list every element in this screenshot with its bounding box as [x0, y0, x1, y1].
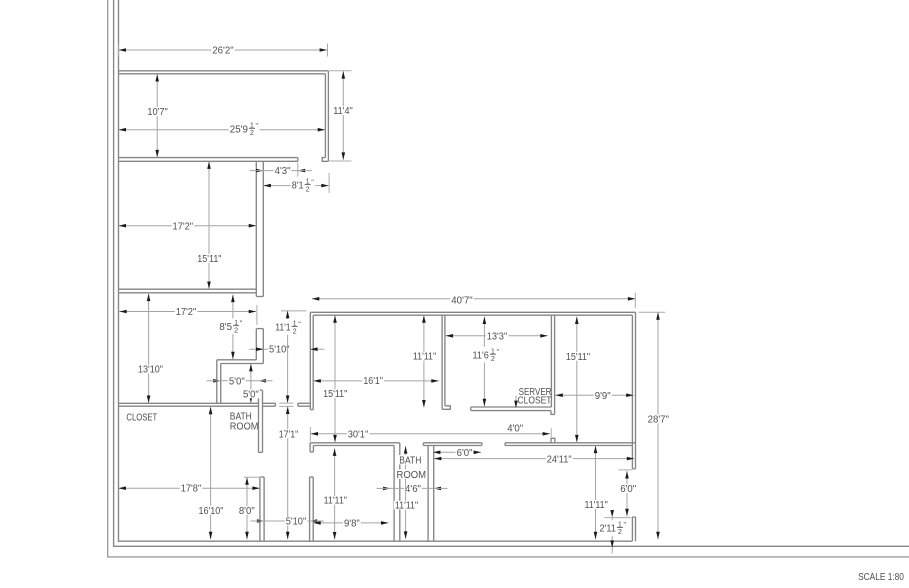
dimension 8'1 1/2	[264, 185, 329, 187]
dimension 17'2 room B	[119, 225, 257, 227]
svg-text:15'11": 15'11"	[197, 254, 222, 265]
dimension 5'10 bottom corridor	[264, 520, 310, 522]
dimension 11'11 bathroom2 vertical	[405, 446, 407, 539]
wall: long corridor wall H1 left part	[119, 402, 259, 404]
wall: bathroom2 right wall	[427, 446, 429, 542]
exterior wall inner face line (L-shape)	[119, 0, 633, 541]
dimension 16'10 closet room vertical	[210, 407, 212, 539]
wall: corridor south wall H2b	[423, 442, 482, 444]
svg-text:25'9: 25'9	[230, 124, 249, 135]
extension tick right door 6'0 bottom / 2'11half top	[605, 517, 632, 519]
extension tick 4'3 right	[297, 163, 299, 177]
wall: P1 bottom foot	[442, 406, 450, 410]
svg-text:": "	[298, 319, 301, 328]
extension tick 28'7 top	[639, 311, 665, 313]
dimension 11'11 bottom right room vertical	[595, 446, 597, 540]
label BATH ROOM 2	[399, 455, 423, 465]
extension tick 30'1 left	[309, 427, 311, 442]
dimension 17'8 closet room	[119, 487, 260, 489]
svg-text:5'10": 5'10"	[269, 345, 290, 356]
dimension 16'1 suite room1	[313, 380, 438, 382]
extension tick 26'2 right	[327, 44, 329, 57]
svg-text:8'0": 8'0"	[239, 506, 255, 517]
extension tick 26'2 left	[117, 44, 119, 57]
svg-text:16'10": 16'10"	[199, 506, 224, 517]
wall: suite right lower segment	[635, 517, 637, 541]
svg-text:10'7": 10'7"	[147, 107, 168, 118]
dimension 9'9 suite room3	[555, 394, 633, 396]
extension tick 8'1half right	[328, 173, 330, 193]
dimension 6'0 right door vertical	[626, 471, 628, 516]
dimension 4'3 door offset	[263, 170, 297, 172]
svg-text:6'0": 6'0"	[620, 484, 636, 495]
svg-text:CLOSET: CLOSET	[126, 412, 157, 423]
svg-text:BATH: BATH	[399, 456, 421, 467]
dimension 11'11 suite room1 right vertical	[423, 315, 425, 407]
svg-text:ROOM: ROOM	[397, 470, 427, 481]
extension tick 8'0 top	[244, 476, 262, 478]
svg-text:2'11: 2'11	[600, 524, 617, 535]
wall: server closet bottom	[471, 406, 552, 408]
wall: suite left wall	[309, 312, 311, 409]
wall: room A right	[327, 71, 329, 162]
svg-text:24'11": 24'11"	[547, 455, 572, 466]
dimension 11'6 1/2 suite room2 vertical	[483, 317, 485, 407]
wall: bathroom2 left wall	[393, 446, 395, 542]
svg-text:2: 2	[618, 527, 622, 536]
wall: suite partition P1	[441, 315, 443, 409]
extension tick 11'4 top	[329, 70, 351, 72]
dimension 28'7 suite right vertical	[657, 312, 659, 539]
wall: bathroom1 top horizontal	[217, 359, 256, 361]
dimension 13'3 suite room2	[446, 335, 548, 337]
svg-text:26'2": 26'2"	[212, 45, 234, 56]
svg-text:11'1: 11'1	[275, 323, 291, 334]
extension tick 40'7 right	[634, 293, 636, 309]
dimension 5'10 corridor above bathroom1	[249, 348, 289, 350]
wall: room A top (26'2 room)	[119, 70, 329, 72]
wall: suite partition P2 (server closet right)	[550, 315, 552, 407]
svg-text:9'8": 9'8"	[344, 518, 360, 529]
svg-text:40'7": 40'7"	[451, 296, 473, 307]
extension ticks corridor 17'1 / 11'1half boundary	[279, 402, 293, 404]
svg-text:8'1: 8'1	[292, 181, 304, 192]
svg-text:13'3": 13'3"	[487, 332, 508, 343]
svg-text:2: 2	[306, 184, 310, 193]
dimension stub arrow at server closet bottom wall	[515, 396, 517, 407]
svg-text:11'4": 11'4"	[333, 106, 353, 117]
svg-text:17'2": 17'2"	[176, 307, 197, 318]
svg-text:11'6: 11'6	[473, 350, 490, 361]
svg-text:11'11": 11'11"	[395, 501, 419, 512]
wall: room A bottom with door gap	[119, 157, 298, 159]
svg-text:16'1": 16'1"	[363, 376, 383, 387]
svg-text:2: 2	[250, 128, 254, 137]
dimension 8'5 1/2 vertical	[232, 295, 234, 359]
dimension 2'11 1/2 right vertical	[611, 518, 613, 541]
svg-text:17'1": 17'1"	[279, 429, 299, 440]
svg-text:15'11": 15'11"	[566, 352, 591, 363]
wall: corridor wall H1 stub right of bathroom1 wall	[263, 402, 276, 404]
dimension 17'1 corridor lower	[287, 407, 289, 540]
svg-text:30'1": 30'1"	[348, 429, 369, 440]
dimension 6'0 door mid	[433, 451, 481, 453]
dimension 15'11 room B vertical	[208, 162, 210, 289]
dimension 24'11 bottom right room	[434, 458, 634, 460]
svg-text:": "	[624, 520, 627, 529]
wall: room B bottom	[119, 288, 257, 290]
wall: room B right	[255, 161, 257, 296]
dimension 26'2 room A top	[119, 49, 327, 51]
dimension 5'0 bathroom1 door width	[221, 380, 259, 382]
dimension 11'11 room 9'8 vertical	[334, 449, 336, 540]
svg-text:17'2": 17'2"	[173, 221, 194, 232]
svg-text:11'11": 11'11"	[324, 496, 348, 507]
dimension 30'1 corridor	[311, 433, 550, 435]
svg-text:6'0": 6'0"	[457, 448, 473, 459]
dimension 17'2 room C	[119, 311, 256, 313]
dimension 13'10 room C vertical	[148, 294, 150, 403]
dimension 8'0 closet room right vertical	[246, 477, 248, 539]
wall: suite right upper segment	[635, 312, 637, 469]
dimension 15'11 suite room3 vertical	[576, 317, 578, 443]
wall: bathroom1 right vertical (crosses H1)	[258, 390, 260, 452]
wall: bathroom1 upper-right vertical stub	[255, 329, 257, 360]
svg-text:11'11": 11'11"	[584, 500, 608, 511]
svg-text:5'0": 5'0"	[243, 389, 259, 400]
dimension 25'9 1/2 room A inner width	[119, 129, 326, 131]
dimension 40'7 suite top	[312, 298, 635, 300]
svg-text:": "	[311, 177, 314, 186]
dimension 9'8 room	[313, 522, 388, 524]
svg-text:CLOSET: CLOSET	[518, 396, 552, 407]
extension tick 30'1 / 4'0 right	[550, 428, 552, 437]
extension tick 2'11half bottom	[611, 541, 613, 554]
svg-text:4'6": 4'6"	[405, 484, 421, 495]
svg-text:": "	[240, 319, 243, 328]
svg-text:ROOM: ROOM	[230, 421, 259, 432]
dimension 15'11 suite room1 vertical	[334, 315, 336, 442]
svg-text:15'11": 15'11"	[323, 389, 348, 400]
dimension 4'6 bathroom2 width	[391, 487, 434, 489]
wall: corridor south wall H2a with left jamb	[310, 442, 400, 444]
dimension 10'7 room A vertical	[156, 74, 158, 157]
svg-text:11'11": 11'11"	[413, 352, 437, 363]
svg-text:4'0": 4'0"	[507, 423, 523, 434]
wall: suite left wall foot into corridor	[298, 402, 310, 404]
svg-text:SCALE 1:80: SCALE 1:80	[858, 572, 904, 583]
svg-text:2: 2	[234, 326, 238, 335]
wall: small notch on H2c below P2	[551, 438, 555, 443]
dimension 11'4 room A right vertical	[342, 71, 344, 160]
dimension 5'0 bathroom1 door vertical	[250, 364, 252, 403]
svg-text:": "	[497, 347, 500, 356]
extension tick 11'4 bottom	[329, 160, 351, 162]
wall: room 9'8 left wall	[309, 477, 311, 541]
wall: corridor south wall H2c	[505, 442, 636, 444]
extension tick 11'1half top	[281, 310, 307, 312]
wall: suite top	[310, 311, 635, 313]
svg-text:13'10": 13'10"	[138, 364, 163, 375]
extension tick 17'2 room C right	[256, 305, 258, 325]
svg-text:2: 2	[293, 326, 297, 335]
svg-text:": "	[256, 121, 259, 130]
wall: room A bottom-right foot by door	[322, 158, 328, 162]
svg-text:28'7": 28'7"	[648, 415, 670, 426]
svg-text:2: 2	[491, 354, 495, 363]
svg-text:5'0": 5'0"	[229, 376, 245, 387]
svg-text:9'9": 9'9"	[595, 391, 611, 402]
svg-text:17'8": 17'8"	[181, 484, 202, 495]
svg-text:5'10": 5'10"	[286, 517, 307, 528]
dimension 11'1 1/2 corridor upper	[287, 311, 289, 403]
svg-text:8'5: 8'5	[219, 322, 232, 333]
wall: bathroom1 left vertical	[216, 360, 218, 404]
svg-text:4'3": 4'3"	[275, 166, 291, 177]
wall: closet-room right wall lower segment	[259, 477, 261, 541]
extension tick right door 6'0 top	[619, 469, 633, 471]
